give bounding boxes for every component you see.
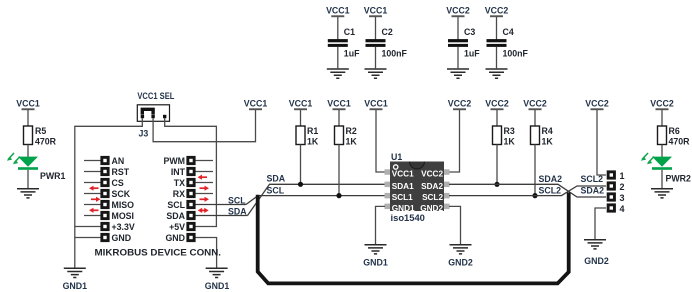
svg-text:1K: 1K xyxy=(504,137,516,147)
wire PWM stub xyxy=(196,160,214,162)
svg-text:100nF: 100nF xyxy=(382,49,408,59)
wire SDA from header xyxy=(196,215,248,217)
pin MISO xyxy=(100,200,109,209)
wire R3 to SDA2 xyxy=(496,145,498,185)
pin +5V xyxy=(186,222,195,231)
ground GND1 (U1) xyxy=(365,245,387,254)
wire SDA diagonal to SDA1 xyxy=(248,184,386,215)
svg-text:R2: R2 xyxy=(346,126,357,136)
svg-text:R4: R4 xyxy=(542,126,553,136)
LED PWR2 xyxy=(652,157,672,170)
svg-text:PWM: PWM xyxy=(164,156,186,166)
wire R4 to SCL2 xyxy=(534,145,536,196)
wire MISO stub xyxy=(84,204,101,206)
wire VCC2 to pin1 xyxy=(597,110,606,175)
pin RX xyxy=(186,189,195,198)
ground GND1 left xyxy=(64,268,86,277)
wire xyxy=(27,145,29,158)
pin INT xyxy=(186,167,195,176)
pin GND left xyxy=(100,233,109,242)
svg-text:VCC2: VCC2 xyxy=(650,99,674,109)
wire xyxy=(27,110,29,126)
svg-text:iso1540: iso1540 xyxy=(391,212,425,223)
wire RX stub xyxy=(196,193,214,195)
svg-text:SCL1: SCL1 xyxy=(392,193,413,202)
wire xyxy=(375,47,377,68)
wire GND branch left xyxy=(75,237,101,239)
arrow RX in xyxy=(200,186,210,191)
pin MOSI xyxy=(100,211,109,220)
pin SCL xyxy=(186,200,195,209)
wire SCL2 from U1 xyxy=(449,186,606,196)
wire xyxy=(457,17,459,40)
svg-text:SDA: SDA xyxy=(267,174,286,184)
wire SCK stub xyxy=(84,193,101,195)
svg-text:R5: R5 xyxy=(35,126,46,136)
svg-text:PWR1: PWR1 xyxy=(40,171,66,181)
capacitor C2 xyxy=(366,39,386,47)
svg-text:VCC2: VCC2 xyxy=(523,99,547,109)
svg-text:J3: J3 xyxy=(139,128,149,138)
node R2/SCL1 xyxy=(336,193,341,198)
wire SCL from header xyxy=(196,204,247,206)
svg-text:MIKROBUS DEVICE CONN.: MIKROBUS DEVICE CONN. xyxy=(95,247,222,257)
node R3/SDA2 xyxy=(494,182,499,187)
svg-text:SCK: SCK xyxy=(112,189,131,199)
pin SDA xyxy=(186,211,195,220)
wire R1 to SDA1 xyxy=(300,145,302,185)
wire xyxy=(375,17,377,40)
pin SCK xyxy=(100,189,109,198)
wire U1 GND1 xyxy=(376,206,386,244)
svg-text:R1: R1 xyxy=(307,126,318,136)
svg-text:C1: C1 xyxy=(344,27,355,37)
resistor R2 xyxy=(338,110,340,126)
svg-text:SDA2: SDA2 xyxy=(539,174,563,184)
svg-text:GND1: GND1 xyxy=(63,281,88,291)
svg-text:1K: 1K xyxy=(346,137,358,147)
svg-text:1K: 1K xyxy=(542,137,554,147)
node R4/SCL2 xyxy=(532,193,537,198)
svg-text:VCC1: VCC1 xyxy=(392,170,414,179)
svg-text:470R: 470R xyxy=(669,137,691,147)
pin CS xyxy=(100,178,109,187)
svg-text:SDA: SDA xyxy=(166,211,185,221)
svg-text:+5V: +5V xyxy=(169,222,185,232)
wire bus xyxy=(258,193,569,284)
pin TX xyxy=(186,178,195,187)
wire xyxy=(661,170,663,188)
ground GND1 right xyxy=(206,268,228,277)
svg-text:GND2: GND2 xyxy=(584,256,609,266)
svg-text:SDA: SDA xyxy=(228,206,247,216)
svg-text:470R: 470R xyxy=(35,137,57,147)
pin PWM xyxy=(186,156,195,165)
svg-text:VCC2: VCC2 xyxy=(485,6,509,16)
wire SDA2 from U1 xyxy=(449,184,606,197)
node R1/SDA1 xyxy=(298,182,303,187)
pin RST xyxy=(100,167,109,176)
wire xyxy=(496,17,498,40)
wire xyxy=(457,47,459,68)
svg-text:U1: U1 xyxy=(391,152,402,162)
svg-text:VCC1: VCC1 xyxy=(244,99,268,109)
svg-text:GND1: GND1 xyxy=(205,281,230,291)
wire TX stub xyxy=(196,182,214,184)
svg-text:SDA1: SDA1 xyxy=(392,182,414,191)
svg-text:RST: RST xyxy=(112,167,130,177)
wire U1 GND2 xyxy=(449,206,461,244)
svg-text:GND: GND xyxy=(112,233,132,243)
wire xyxy=(337,17,339,40)
capacitor C1 xyxy=(328,39,348,47)
wire +3.3V branch xyxy=(75,226,101,228)
svg-text:VCC1 SEL: VCC1 SEL xyxy=(137,91,175,101)
svg-text:INT: INT xyxy=(171,167,186,177)
svg-text:VCC1: VCC1 xyxy=(364,6,388,16)
ground xyxy=(486,69,508,78)
ground GND2 (CN) xyxy=(584,240,606,249)
arrow SDA bidir xyxy=(198,208,209,213)
wire xyxy=(661,145,663,158)
jumper J3 xyxy=(137,105,169,122)
svg-text:PWR2: PWR2 xyxy=(666,174,692,184)
svg-text:C2: C2 xyxy=(382,27,393,37)
svg-text:VCC2: VCC2 xyxy=(485,99,509,109)
svg-text:1uF: 1uF xyxy=(344,49,360,59)
svg-text:1: 1 xyxy=(620,171,625,181)
wire pin4 to ground xyxy=(595,208,606,239)
wire CS stub xyxy=(84,182,101,184)
svg-text:SCL2: SCL2 xyxy=(581,174,604,184)
capacitor C3 xyxy=(448,39,468,47)
wire INT stub xyxy=(196,171,214,173)
arrow SCL in xyxy=(200,197,210,202)
svg-text:MOSI: MOSI xyxy=(112,211,134,221)
svg-text:AN: AN xyxy=(112,156,125,166)
svg-text:SDA2: SDA2 xyxy=(421,182,443,191)
svg-text:SDA2: SDA2 xyxy=(581,185,605,195)
svg-text:GND2: GND2 xyxy=(448,258,473,268)
arrow SCK out xyxy=(89,186,99,191)
ground xyxy=(327,69,349,78)
wire xyxy=(496,47,498,68)
svg-text:1K: 1K xyxy=(307,137,319,147)
svg-text:+3.3V: +3.3V xyxy=(112,222,135,232)
svg-text:SCL: SCL xyxy=(167,200,185,210)
pin 2 xyxy=(607,181,616,190)
capacitor C4 xyxy=(487,39,507,47)
svg-text:SCL: SCL xyxy=(267,185,285,195)
ground xyxy=(365,69,387,78)
wire xyxy=(337,47,339,68)
svg-text:MISO: MISO xyxy=(112,200,135,210)
pin 3 xyxy=(607,192,616,201)
LED PWR1 xyxy=(18,157,38,170)
svg-text:C3: C3 xyxy=(464,27,475,37)
svg-text:VCC1: VCC1 xyxy=(364,99,388,109)
wire MOSI stub xyxy=(84,215,101,217)
resistor R4 xyxy=(534,110,536,126)
ground xyxy=(17,189,39,198)
wire J3 pin3 to +5V xyxy=(165,118,217,227)
resistor R6 xyxy=(658,126,667,145)
svg-text:3: 3 xyxy=(620,193,625,203)
svg-text:CS: CS xyxy=(112,178,124,188)
wire RST stub xyxy=(84,171,101,173)
svg-text:R3: R3 xyxy=(504,126,515,136)
resistor R3 xyxy=(496,110,498,126)
ground xyxy=(651,189,673,198)
svg-text:VCC1: VCC1 xyxy=(326,6,350,16)
wire J3 pin1 to +3.3V loop xyxy=(75,118,143,268)
svg-text:TX: TX xyxy=(174,178,185,188)
wire SCL diagonal to SCL1 xyxy=(246,196,385,205)
svg-text:SCL2: SCL2 xyxy=(539,185,562,195)
ground GND2 (U1) xyxy=(450,245,472,254)
wire xyxy=(661,110,663,126)
svg-text:VCC1: VCC1 xyxy=(289,99,313,109)
wire R2 to SCL1 xyxy=(338,145,340,196)
wire AN stub xyxy=(84,160,101,162)
arrow MISO in xyxy=(91,197,101,202)
pin GND right xyxy=(186,233,195,242)
wire xyxy=(27,170,29,188)
resistor R1 xyxy=(300,110,302,126)
pin AN xyxy=(100,156,109,165)
svg-text:RX: RX xyxy=(173,189,185,199)
resistor R5 xyxy=(24,126,33,145)
svg-text:VCC1: VCC1 xyxy=(327,99,351,109)
svg-text:C4: C4 xyxy=(503,27,514,37)
svg-text:VCC2: VCC2 xyxy=(421,170,443,179)
svg-text:VCC2: VCC2 xyxy=(585,99,609,109)
pin 4 xyxy=(607,203,616,212)
pin +3.3V xyxy=(100,222,109,231)
arrow MOSI out xyxy=(89,208,99,213)
svg-text:GND1: GND1 xyxy=(363,258,388,268)
pin 1 xyxy=(607,170,616,179)
wire U1 VCC2 xyxy=(449,110,460,172)
wire U1 VCC1 xyxy=(376,110,385,172)
svg-text:1uF: 1uF xyxy=(464,49,480,59)
svg-text:GND: GND xyxy=(165,233,185,243)
svg-text:VCC2: VCC2 xyxy=(446,6,470,16)
ground xyxy=(447,69,469,78)
svg-text:SCL: SCL xyxy=(228,195,246,205)
svg-text:SCL2: SCL2 xyxy=(422,193,443,202)
svg-text:2: 2 xyxy=(620,182,625,192)
svg-text:100nF: 100nF xyxy=(503,49,529,59)
wire GND branch right xyxy=(196,238,217,268)
svg-text:R6: R6 xyxy=(669,126,680,136)
wire J3 pin2 to VCC1 xyxy=(153,110,255,142)
arrow TX out xyxy=(198,175,208,180)
svg-text:4: 4 xyxy=(620,204,625,214)
svg-text:VCC2: VCC2 xyxy=(448,99,472,109)
svg-text:VCC1: VCC1 xyxy=(16,99,40,109)
